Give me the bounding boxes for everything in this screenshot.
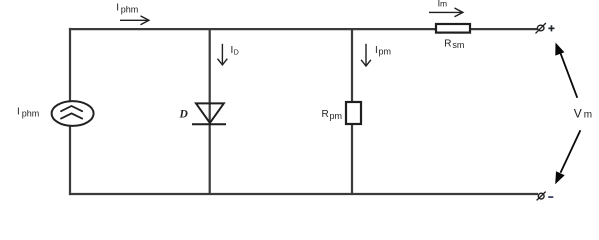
svg-text:I: I: [375, 45, 378, 56]
svg-text:sm: sm: [452, 40, 464, 50]
arrow Vm upper (to plus terminal): [555, 43, 577, 98]
terminal minus (circle with slash): [537, 192, 546, 201]
wire left branch upper segment: [69, 28, 71, 103]
resistor Rpm (symbol): [346, 102, 361, 124]
svg-text:R: R: [444, 38, 451, 49]
svg-text:R: R: [322, 109, 329, 120]
label plus sign: [548, 25, 554, 31]
wire diode branch: [209, 29, 211, 194]
wire top horizontal: [69, 28, 537, 30]
label minus sign: [548, 196, 553, 198]
svg-text:pm: pm: [379, 46, 392, 56]
wire left branch lower segment: [69, 124, 71, 195]
svg-text:phm: phm: [22, 109, 40, 119]
diode D (symbol): [192, 103, 226, 124]
wire Rpm branch: [351, 29, 353, 194]
svg-text:D: D: [234, 49, 239, 56]
arrow Im current direction: [429, 8, 463, 17]
arrow ID current: [218, 44, 228, 65]
svg-text:I: I: [116, 2, 119, 13]
svg-text:phm: phm: [121, 4, 139, 14]
current source Iphm (symbol): [52, 101, 94, 126]
svg-text:m: m: [440, 0, 447, 9]
svg-text:D: D: [179, 108, 189, 120]
svg-text:pm: pm: [330, 111, 343, 121]
terminal plus (circle with slash): [536, 23, 546, 33]
arrow Ipm current: [361, 44, 371, 66]
svg-text:I: I: [17, 107, 20, 118]
resistor Rsm (symbol): [436, 24, 470, 33]
svg-text:V: V: [574, 107, 582, 121]
arrow Vm lower (to minus terminal): [555, 130, 580, 184]
arrow Iphm current direction: [120, 16, 149, 25]
svg-text:m: m: [584, 110, 592, 121]
wire bottom horizontal: [69, 193, 538, 195]
